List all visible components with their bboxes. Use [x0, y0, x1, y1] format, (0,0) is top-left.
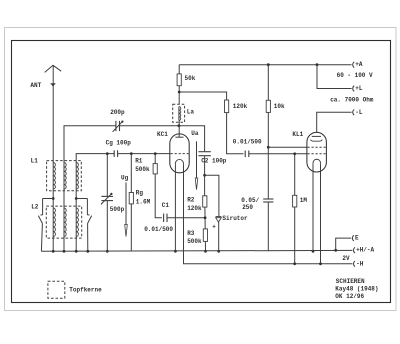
- svg-text:Kay48 (1948): Kay48 (1948): [335, 286, 378, 293]
- resistor 1M: [293, 195, 297, 207]
- resistor 50k: [177, 74, 181, 86]
- KC1 anode plate: [175, 136, 183, 138]
- capacitor 0.01/500 coupling: [244, 151, 246, 158]
- svg-text:+L: +L: [355, 85, 363, 92]
- wire grid to R1: [154, 154, 156, 164]
- svg-text:60 - 100 V: 60 - 100 V: [337, 72, 373, 79]
- svg-text:2V: 2V: [342, 255, 350, 262]
- capacitor C1: [163, 214, 165, 222]
- wire L1-L2 middle: [63, 189, 65, 208]
- wire Cg to KC1 grid: [118, 153, 171, 155]
- KC1 grid dashes: [171, 153, 189, 155]
- tube KC1 envelope: [170, 134, 189, 173]
- junction L2 middle rail: [63, 250, 66, 253]
- wire anode node to C2 corner: [179, 126, 205, 152]
- svg-text:SCHIEREN: SCHIEREN: [336, 278, 365, 285]
- wire 120k to coupling cap: [227, 113, 244, 154]
- svg-text:500p: 500p: [110, 206, 125, 213]
- plug contact left: [42, 199, 44, 215]
- svg-text:R1: R1: [135, 158, 143, 165]
- wire R1 to C1: [155, 174, 162, 218]
- svg-text:L2: L2: [31, 204, 39, 211]
- svg-text:+A: +A: [355, 61, 363, 68]
- wire 0.05 cap to rail: [267, 202, 269, 251]
- variable capacitor 500p: [101, 195, 113, 197]
- diode Sirutor: [216, 216, 222, 218]
- svg-text:R3: R3: [187, 230, 195, 237]
- wire L1-L2 left: [52, 189, 54, 208]
- resistor 10k: [266, 100, 270, 112]
- KC1 cathode arc: [175, 159, 183, 165]
- KC1 heater left lead: [174, 166, 176, 252]
- svg-text:ca. 7000 Ohm: ca. 7000 Ohm: [330, 97, 374, 104]
- wire C2 to detector node: [204, 156, 206, 176]
- antenna symbol: [45, 65, 62, 72]
- svg-text:R2: R2: [187, 197, 195, 204]
- wire 50k to La: [178, 86, 180, 105]
- junction left tap: [52, 197, 55, 200]
- wire right tap stub: [76, 198, 87, 200]
- resistor 120k: [225, 100, 229, 113]
- wire left tap stub: [43, 198, 54, 200]
- terminal +A: [353, 62, 354, 68]
- wire Rg to rail: [130, 204, 132, 251]
- junction +L tap: [316, 63, 319, 66]
- L1 winding left: [53, 163, 55, 190]
- svg-text:-L: -L: [355, 109, 363, 116]
- wire 10k to grid node: [267, 112, 269, 147]
- junction 10k tap: [267, 63, 270, 66]
- junction 500p rail: [106, 250, 109, 253]
- junction detector node: [203, 174, 206, 177]
- wire antenna down to L1: [52, 65, 54, 162]
- junction KL1 grid node: [267, 146, 270, 149]
- KL1 heater left lead: [312, 165, 314, 251]
- wire R2 to R3: [204, 207, 206, 229]
- svg-text:200p: 200p: [110, 109, 125, 116]
- tube KL1 envelope: [307, 132, 327, 172]
- wire L1-L2 right: [75, 189, 77, 208]
- svg-text:250: 250: [242, 204, 253, 211]
- junction anode node: [178, 124, 181, 127]
- voltage arrow Ug: [125, 183, 127, 226]
- junction Rg tap: [130, 152, 133, 155]
- wire 50k node to 120k: [179, 92, 226, 100]
- junction right plug rail: [86, 250, 89, 253]
- terminal -L: [353, 110, 354, 116]
- wire anode node to KC1 anode: [178, 126, 180, 137]
- svg-text:500k: 500k: [187, 238, 202, 245]
- wire grid node to KL1 grid: [268, 146, 307, 148]
- legend Topfkerne box: [48, 281, 65, 298]
- svg-text:500k: 500k: [135, 166, 150, 173]
- svg-text:50k: 50k: [185, 75, 196, 82]
- KL1 cathode arc: [313, 159, 321, 165]
- junction E rail: [334, 249, 337, 252]
- svg-text:120k: 120k: [187, 205, 202, 212]
- wire L1 to Cg: [76, 154, 114, 163]
- svg-text:ANT: ANT: [30, 82, 41, 89]
- junction right tap: [75, 197, 78, 200]
- L1 winding middle: [64, 163, 66, 190]
- wire C1 to R2-R3 node: [167, 217, 205, 219]
- resistor Rg: [129, 193, 133, 204]
- wire detector node to R2: [204, 175, 206, 196]
- junction L2 right rail: [75, 250, 78, 253]
- wire R3 to rail: [204, 241, 206, 251]
- L1 winding right: [76, 163, 78, 190]
- L2 winding left: [53, 208, 55, 237]
- svg-text:0.05/: 0.05/: [241, 197, 259, 204]
- svg-text:+H/-A: +H/-A: [356, 247, 374, 254]
- inductor L1 box: [47, 161, 82, 191]
- KL1 screen grid: [310, 140, 322, 142]
- L2 winding right: [76, 208, 78, 237]
- junction KL1 heater rail: [312, 250, 315, 253]
- svg-text:1.6M: 1.6M: [136, 198, 151, 205]
- junction 1M tap: [293, 152, 296, 155]
- wire 50k to +A rail: [178, 65, 180, 74]
- svg-text:120k: 120k: [233, 103, 248, 110]
- wire detector node to sirutor: [205, 175, 219, 216]
- ground rail +H/-A: [41, 249, 352, 252]
- junction R2-R3 node: [204, 216, 207, 219]
- wire 500p to ground rail: [106, 201, 108, 252]
- wire grid to Rg: [130, 154, 132, 193]
- wire +A rail to 10k: [267, 65, 269, 101]
- inductor La box: [173, 104, 185, 122]
- capacitor 0.05/250: [263, 198, 273, 200]
- inductor L2 box: [46, 206, 81, 238]
- capacitor Cg 100p: [113, 150, 115, 157]
- KL1 heater right lead: [320, 165, 322, 264]
- wire sirutor to rail: [218, 222, 220, 251]
- terminal -H: [354, 261, 355, 267]
- L2 winding middle: [64, 208, 66, 237]
- junction L2 left rail: [52, 250, 55, 253]
- resistor R2: [203, 196, 207, 207]
- voltage arrow Ua: [196, 141, 198, 178]
- wire grid to 500p: [106, 154, 108, 197]
- wire coupling cap to KL1 cathode: [249, 153, 307, 155]
- wire L2 middle to rail: [63, 237, 65, 252]
- wire La to anode node: [178, 120, 180, 125]
- wire terminal E: [336, 238, 352, 250]
- KL1 grid dashes: [308, 146, 326, 148]
- terminal E: [352, 235, 353, 241]
- junction 50k-120k node: [178, 91, 181, 94]
- svg-text:Cg 100p: Cg 100p: [106, 140, 132, 147]
- trimmer capacitor 200p: [115, 121, 117, 131]
- junction 500p tap: [106, 152, 109, 155]
- svg-text:-H: -H: [356, 260, 364, 267]
- wire node feedback left drop: [64, 126, 116, 163]
- wire L2 right to rail: [75, 237, 77, 252]
- wire +L: [317, 65, 352, 89]
- svg-text:Ug: Ug: [121, 175, 129, 182]
- svg-text:0.01/500: 0.01/500: [144, 226, 173, 233]
- junction sirutor rail: [217, 250, 220, 253]
- svg-text:E: E: [355, 235, 359, 242]
- svg-text:OK 12/96: OK 12/96: [335, 293, 364, 300]
- svg-text:L1: L1: [31, 158, 39, 165]
- wire L2 left to rail: [52, 237, 54, 252]
- junction 1M lower rail: [293, 262, 296, 265]
- supply rail +A: [179, 64, 351, 66]
- inductor La coil: [179, 107, 181, 121]
- wire 1M to lower rail: [294, 207, 296, 264]
- wire 200p to anode node: [120, 125, 179, 127]
- svg-text:KC1: KC1: [157, 131, 168, 138]
- svg-text:KL1: KL1: [292, 131, 303, 138]
- capacitor C2 100p: [198, 151, 210, 153]
- KL1 cathode dashes: [308, 153, 326, 155]
- border frame: [12, 41, 391, 303]
- svg-text:C1: C1: [162, 202, 170, 209]
- svg-text:Ua: Ua: [191, 130, 199, 137]
- resistor R1: [153, 164, 157, 174]
- svg-text:10k: 10k: [274, 103, 285, 110]
- svg-text:Rg: Rg: [136, 189, 144, 196]
- terminal +H/-A: [354, 247, 355, 253]
- junction R1 tap: [154, 152, 157, 155]
- wire grid node to 0.05 cap: [267, 147, 269, 199]
- svg-text:1M: 1M: [300, 197, 308, 204]
- svg-text:0.01/500: 0.01/500: [233, 139, 262, 146]
- svg-text:Topfkerne: Topfkerne: [69, 286, 102, 293]
- svg-text:Sirutor: Sirutor: [222, 215, 248, 222]
- junction KC1 heater rail: [174, 250, 177, 253]
- KL1 anode plate: [312, 135, 321, 137]
- junction KL1 heater lower rail: [319, 262, 322, 265]
- terminal +L: [353, 86, 354, 92]
- KC1 heater right lead: [184, 166, 353, 264]
- junction R3 rail: [204, 250, 207, 253]
- svg-text:+: +: [212, 224, 216, 231]
- label -L terminal wire: [317, 112, 352, 132]
- plug contact right: [86, 199, 88, 215]
- svg-text:La: La: [187, 109, 195, 116]
- resistor R3: [203, 229, 207, 242]
- wire cathode to 1M: [294, 154, 296, 196]
